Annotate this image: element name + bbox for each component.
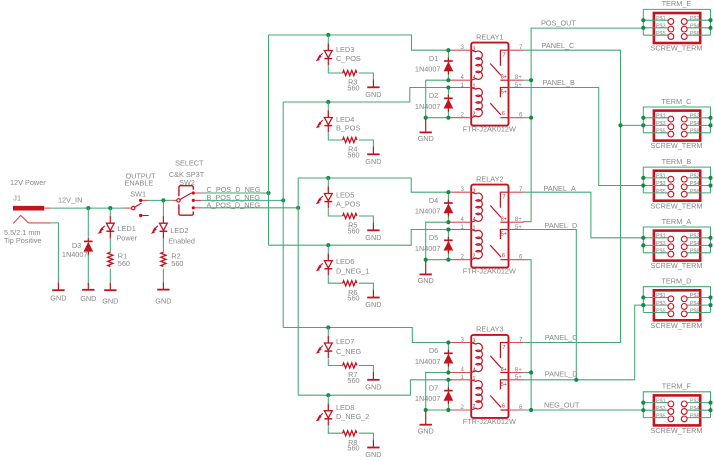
- svg-text:P$4: P$4: [690, 301, 700, 307]
- svg-text:560: 560: [118, 259, 130, 268]
- svg-text:P$2: P$2: [690, 174, 700, 180]
- junction TERM_C right row2: [708, 123, 712, 127]
- svg-text:PANEL_D: PANEL_D: [545, 221, 578, 230]
- svg-text:P$2: P$2: [690, 16, 700, 22]
- diode D4: [444, 200, 453, 217]
- svg-text:4: 4: [461, 216, 465, 223]
- ground GND (R2): [157, 283, 169, 290]
- wire net PANEL_B: [524, 88, 644, 186]
- svg-text:3: 3: [461, 186, 465, 193]
- wire LED2 branch: [162, 200, 164, 284]
- svg-text:8+: 8+: [515, 74, 522, 81]
- svg-text:8+: 8+: [515, 367, 522, 374]
- svg-text:SCREW_TERM: SCREW_TERM: [651, 141, 703, 150]
- svg-text:P$1: P$1: [656, 398, 666, 404]
- svg-text:4: 4: [473, 75, 476, 81]
- svg-text:6: 6: [502, 403, 505, 409]
- svg-text:1: 1: [461, 224, 465, 231]
- LED LED3 symbol: [317, 44, 333, 66]
- svg-text:3: 3: [473, 46, 476, 52]
- svg-text:P$1: P$1: [656, 114, 666, 120]
- wire SW1 to SW2: [148, 199, 172, 201]
- svg-text:5+: 5+: [501, 232, 507, 238]
- svg-text:GND: GND: [365, 233, 381, 242]
- svg-text:GND: GND: [50, 294, 66, 303]
- svg-text:POS_OUT: POS_OUT: [541, 19, 576, 28]
- svg-text:3: 3: [473, 188, 476, 194]
- svg-text:1N4007: 1N4007: [415, 357, 441, 366]
- svg-text:GND: GND: [418, 134, 434, 143]
- svg-text:7: 7: [503, 195, 506, 201]
- svg-text:SELECT: SELECT: [175, 158, 204, 167]
- wire row LED8 to RELAY3 pin1: [298, 380, 452, 395]
- svg-text:3: 3: [461, 337, 465, 344]
- svg-text:RELAY1: RELAY1: [476, 32, 503, 41]
- svg-text:6: 6: [519, 254, 523, 261]
- svg-text:P$3: P$3: [656, 241, 666, 247]
- svg-text:PANEL_C: PANEL_C: [542, 41, 575, 50]
- junction D7 cathode / RELAY3 pin2: [446, 408, 450, 412]
- svg-text:Tip Positive: Tip Positive: [4, 236, 41, 245]
- svg-text:P$1: P$1: [656, 16, 666, 22]
- junction C_POS_D_NEG bus: [266, 191, 270, 195]
- junction RELAY1 coil GND: [424, 116, 428, 120]
- svg-text:6: 6: [502, 253, 505, 259]
- relay RELAY2: [463, 174, 516, 275]
- svg-text:5+: 5+: [515, 374, 522, 381]
- svg-text:LED7: LED7: [336, 337, 354, 346]
- svg-text:P$5: P$5: [656, 31, 666, 37]
- junction TERM_F right row1: [708, 401, 712, 405]
- svg-text:P$1: P$1: [656, 234, 666, 240]
- svg-text:SCREW_TERM: SCREW_TERM: [651, 44, 703, 53]
- svg-text:1N4007: 1N4007: [415, 207, 441, 216]
- svg-text:560: 560: [347, 226, 359, 235]
- svg-text:12V_IN: 12V_IN: [58, 195, 82, 204]
- svg-text:Enabled: Enabled: [168, 237, 195, 246]
- relay RELAY1: [463, 32, 516, 133]
- junction TERM_B right row1: [708, 176, 712, 180]
- relay RELAY3: [463, 325, 516, 426]
- svg-text:D6: D6: [429, 346, 438, 355]
- svg-text:PANEL_D: PANEL_D: [545, 369, 578, 378]
- svg-text:C_POS: C_POS: [336, 54, 361, 63]
- svg-text:P$3: P$3: [656, 121, 666, 127]
- svg-text:P$5: P$5: [656, 129, 666, 135]
- wire LED6 branch: [328, 245, 373, 290]
- junction LED3 tap: [326, 33, 330, 37]
- wire net A_POS_D_NEG: [201, 207, 298, 209]
- svg-text:560: 560: [347, 150, 359, 159]
- svg-text:4: 4: [473, 368, 476, 374]
- svg-text:P$2: P$2: [690, 114, 700, 120]
- svg-text:8+: 8+: [501, 75, 507, 81]
- svg-text:7: 7: [503, 345, 506, 351]
- wire D6 vertical: [447, 343, 449, 373]
- wire net PANEL_D row to TERM_D: [523, 305, 644, 380]
- svg-text:TERM_C: TERM_C: [661, 97, 691, 106]
- svg-text:TERM_A: TERM_A: [662, 217, 692, 226]
- junction LED7 tap: [326, 325, 330, 329]
- svg-text:1: 1: [473, 84, 476, 90]
- svg-text:P$4: P$4: [690, 406, 700, 412]
- svg-text:SW1: SW1: [130, 190, 146, 199]
- svg-text:8+: 8+: [515, 216, 522, 223]
- junction TERM_D right row1: [708, 295, 712, 299]
- resistor R1: [108, 252, 113, 266]
- wire net PANEL_C: [524, 50, 621, 342]
- svg-text:D4: D4: [429, 196, 438, 205]
- svg-text:SCREW_TERM: SCREW_TERM: [651, 201, 703, 210]
- svg-text:GND: GND: [365, 157, 381, 166]
- junction D6 anode / RELAY3 pin3: [446, 340, 450, 344]
- svg-text:D5: D5: [429, 233, 438, 242]
- svg-text:PANEL_A: PANEL_A: [544, 184, 576, 193]
- svg-text:8+: 8+: [501, 217, 507, 223]
- junction D1 cathode / RELAY1 pin4: [446, 78, 450, 82]
- screw terminal TERM_D: [643, 277, 710, 330]
- wire SW1 common stub: [125, 207, 132, 209]
- ground GND (RELAY2 coils): [420, 261, 432, 274]
- junction TERM_F left row1: [641, 401, 645, 405]
- junction D7 anode / RELAY3 pin1: [446, 378, 450, 382]
- svg-text:FTR-J2AK012W: FTR-J2AK012W: [463, 417, 516, 426]
- svg-text:P$2: P$2: [690, 293, 700, 299]
- wire D4 vertical: [447, 192, 449, 222]
- wire LED8 branch: [328, 395, 373, 440]
- screw terminal TERM_F: [643, 382, 710, 435]
- svg-text:LED1: LED1: [118, 224, 136, 233]
- svg-text:4: 4: [461, 74, 465, 81]
- junction 12V_IN / D3: [86, 206, 90, 210]
- svg-text:GND: GND: [365, 90, 381, 99]
- junction D1 anode / RELAY1 pin3: [446, 48, 450, 52]
- svg-text:NEG_OUT: NEG_OUT: [544, 400, 580, 409]
- wire net PANEL_A: [524, 192, 644, 238]
- junction D6 cathode / RELAY3 pin4: [446, 370, 450, 374]
- wire LED3 branch: [328, 35, 373, 80]
- svg-text:3: 3: [461, 44, 465, 51]
- junction TERM_C left row2: [641, 123, 645, 127]
- junction D4 cathode / RELAY2 pin4: [446, 220, 450, 224]
- wire RELAY1 pin8 to chain: [524, 79, 531, 81]
- svg-text:ENABLE: ENABLE: [125, 178, 154, 187]
- svg-text:P$4: P$4: [690, 24, 700, 30]
- ground GND (RELAY1 coils): [420, 119, 432, 132]
- wire RELAY3 pin4 to pin2 link: [426, 373, 449, 411]
- junction TERM_E left row1: [641, 18, 645, 22]
- svg-text:5+: 5+: [501, 382, 507, 388]
- svg-text:RELAY2: RELAY2: [476, 174, 503, 183]
- junction D5 cathode / RELAY2 pin2: [446, 258, 450, 262]
- svg-text:GND: GND: [80, 294, 96, 303]
- switch SW2 (SP3T): [177, 186, 195, 216]
- wire D7 vertical: [447, 380, 449, 410]
- ground GND (RELAY3 coils): [420, 412, 432, 425]
- screw terminal TERM_C: [643, 97, 710, 150]
- LED LED8 symbol: [317, 404, 333, 426]
- svg-text:6: 6: [519, 404, 523, 411]
- svg-text:SCREW_TERM: SCREW_TERM: [651, 321, 703, 330]
- svg-text:560: 560: [347, 83, 359, 92]
- svg-text:4: 4: [473, 217, 476, 223]
- svg-text:GND: GND: [102, 296, 118, 305]
- resistor R3: [343, 70, 357, 75]
- LED LED6 symbol: [317, 254, 333, 276]
- resistor R5: [343, 213, 357, 218]
- svg-text:GND: GND: [365, 450, 381, 459]
- diode D2: [444, 95, 453, 112]
- svg-text:Power: Power: [116, 234, 137, 243]
- ground GND (R8): [367, 440, 379, 448]
- svg-text:P$5: P$5: [656, 308, 666, 314]
- svg-text:A_POS: A_POS: [336, 200, 360, 209]
- junction TERM_E right row2: [708, 26, 712, 30]
- LED LED4 symbol: [317, 111, 333, 133]
- svg-text:560: 560: [347, 294, 359, 303]
- svg-text:1N4007: 1N4007: [415, 244, 441, 253]
- relay RELAY2 pin numbers: [461, 186, 523, 261]
- svg-text:GND: GND: [418, 276, 434, 285]
- svg-text:P$1: P$1: [656, 174, 666, 180]
- svg-text:7: 7: [519, 44, 523, 51]
- wire RELAY2 left pin stubs: [451, 192, 472, 260]
- wire row LED3 to RELAY1 pin3: [269, 35, 453, 50]
- svg-text:TERM_B: TERM_B: [662, 157, 692, 166]
- svg-text:5+: 5+: [515, 82, 522, 89]
- junction D4 anode / RELAY2 pin3: [446, 190, 450, 194]
- svg-text:LED3: LED3: [336, 45, 354, 54]
- screw terminal TERM_A: [643, 217, 710, 270]
- screw terminal TERM_E: [643, 0, 710, 53]
- svg-text:7: 7: [519, 337, 523, 344]
- svg-text:1: 1: [461, 82, 465, 89]
- resistor R8: [343, 431, 357, 436]
- wire LED7 branch: [328, 328, 373, 373]
- svg-text:P$2: P$2: [690, 234, 700, 240]
- wire LED5 branch: [328, 178, 373, 223]
- connector J1 sleeve symbol: [13, 215, 50, 223]
- svg-text:TERM_E: TERM_E: [662, 0, 692, 8]
- wire SW2 common stub: [172, 199, 176, 201]
- ground GND (R5): [367, 223, 379, 231]
- wire RELAY3 left pin stubs: [451, 343, 472, 411]
- resistor R7: [343, 363, 357, 368]
- svg-text:P$3: P$3: [656, 181, 666, 187]
- svg-text:LED6: LED6: [336, 257, 354, 266]
- svg-text:PANEL_C: PANEL_C: [545, 333, 578, 342]
- wire D1 vertical: [447, 50, 449, 80]
- junction TERM_D left row1: [641, 295, 645, 299]
- diode D1: [444, 58, 453, 75]
- ground GND (R4): [367, 147, 379, 155]
- wire row LED5 to RELAY2 pin3: [298, 178, 452, 192]
- svg-text:P$3: P$3: [656, 301, 666, 307]
- wire net 12V_IN J1 to SW1: [51, 207, 125, 209]
- wire row LED7 to RELAY3 pin3: [283, 328, 452, 343]
- wire RELAY1 pin4 to pin2 link: [426, 80, 449, 118]
- svg-text:FTR-J2AK012W: FTR-J2AK012W: [463, 125, 516, 134]
- relay RELAY3 pin numbers: [461, 337, 523, 412]
- svg-text:560: 560: [347, 376, 359, 385]
- svg-text:2: 2: [461, 404, 465, 411]
- switch SW1 (SPDT toggle): [132, 199, 149, 218]
- junction LED4 tap: [326, 100, 330, 104]
- ground GND (J1 sleeve): [52, 283, 64, 291]
- svg-text:5+: 5+: [515, 224, 522, 231]
- svg-text:2: 2: [461, 254, 465, 261]
- diode D6: [444, 350, 453, 367]
- svg-text:P$1: P$1: [656, 293, 666, 299]
- svg-text:D_NEG_2: D_NEG_2: [336, 412, 369, 421]
- junction PANEL_C / TERM_C tap: [618, 123, 622, 127]
- svg-text:FTR-J2AK012W: FTR-J2AK012W: [463, 267, 516, 276]
- svg-text:1N4007: 1N4007: [415, 394, 441, 403]
- LED LED7 symbol: [317, 336, 333, 358]
- junction TERM_A right row2: [708, 243, 712, 247]
- svg-text:1: 1: [473, 376, 476, 382]
- svg-text:2: 2: [461, 112, 465, 119]
- svg-text:J1: J1: [13, 193, 21, 202]
- svg-text:P$6: P$6: [690, 31, 700, 37]
- svg-text:SCREW_TERM: SCREW_TERM: [651, 426, 703, 435]
- junction POS_OUT / RELAY1 pin8: [529, 78, 533, 82]
- junction TERM_E right row1: [708, 18, 712, 22]
- svg-text:P$5: P$5: [656, 189, 666, 195]
- wire D3 branch: [87, 208, 89, 285]
- junction NEG_OUT / RELAY3 pin6: [529, 408, 533, 412]
- junction PANEL_D: [574, 378, 578, 382]
- svg-text:P$2: P$2: [690, 398, 700, 404]
- svg-text:D1: D1: [429, 54, 438, 63]
- LED LED1 symbol: [99, 216, 115, 238]
- screw terminal TERM_B: [643, 157, 710, 210]
- resistor R4: [343, 137, 357, 142]
- ground GND (R1): [104, 283, 116, 290]
- ground GND (R7): [367, 372, 379, 380]
- svg-text:LED8: LED8: [336, 403, 354, 412]
- svg-text:PANEL_B: PANEL_B: [543, 78, 575, 87]
- junction D2 anode / RELAY1 pin1: [446, 85, 450, 89]
- svg-text:D3: D3: [72, 241, 81, 250]
- wire RELAY2 right pin stubs: [509, 192, 524, 260]
- wire net PANEL_D from RELAY2: [523, 230, 577, 380]
- svg-text:P$5: P$5: [656, 414, 666, 420]
- svg-text:3: 3: [473, 339, 476, 345]
- svg-text:2: 2: [473, 254, 476, 260]
- junction TERM_A left row1: [641, 236, 645, 240]
- junction 12V_IN / LED1: [108, 206, 112, 210]
- junction TERM_D left row2: [641, 303, 645, 307]
- svg-text:P$6: P$6: [690, 414, 700, 420]
- junction TERM_B left row1: [641, 176, 645, 180]
- wire row LED4 to RELAY1 pin1: [283, 88, 452, 103]
- svg-text:D_NEG_1: D_NEG_1: [336, 267, 369, 276]
- wire J1 sleeve to GND: [51, 223, 59, 285]
- ground GND (R6): [367, 290, 379, 298]
- svg-text:P$6: P$6: [690, 308, 700, 314]
- svg-text:P$3: P$3: [656, 406, 666, 412]
- LED LED5 symbol: [317, 187, 333, 209]
- junction TERM_E left row2: [641, 26, 645, 30]
- junction RELAY2 coil GND: [424, 258, 428, 262]
- svg-text:2: 2: [473, 404, 476, 410]
- svg-text:5+: 5+: [501, 90, 507, 96]
- resistor R2: [161, 252, 166, 266]
- svg-text:12V Power: 12V Power: [10, 178, 46, 187]
- junction D2 cathode / RELAY1 pin2: [446, 116, 450, 120]
- svg-text:GND: GND: [365, 382, 381, 391]
- svg-text:LED2: LED2: [170, 226, 188, 235]
- svg-text:SCREW_TERM: SCREW_TERM: [651, 261, 703, 270]
- junction LED8 tap: [326, 393, 330, 397]
- wire net NEG_OUT chain: [523, 260, 531, 410]
- wire SW2 throw stubs: [195, 193, 201, 208]
- svg-text:1: 1: [473, 226, 476, 232]
- relay RELAY1 pin numbers: [461, 44, 523, 119]
- svg-text:6: 6: [519, 112, 523, 119]
- junction LED5 tap: [326, 176, 330, 180]
- junction TERM_C left row1: [641, 116, 645, 120]
- svg-text:GND: GND: [155, 296, 171, 305]
- junction TERM_B right row2: [708, 183, 712, 187]
- svg-text:P$6: P$6: [690, 129, 700, 135]
- junction NEG_OUT chain / RELAY3 pin8: [529, 370, 533, 374]
- svg-text:D7: D7: [429, 384, 438, 393]
- junction TERM_A left row2: [641, 243, 645, 247]
- svg-text:6: 6: [502, 111, 505, 117]
- junction TERM_D right row2: [708, 303, 712, 307]
- junction D5 anode / RELAY2 pin1: [446, 227, 450, 231]
- svg-text:RELAY3: RELAY3: [476, 325, 503, 334]
- wire net POS_OUT chain: [523, 28, 643, 222]
- wire LED1 branch: [109, 208, 111, 284]
- wire row LED6 to RELAY2 pin1: [269, 230, 453, 246]
- svg-text:1N4007: 1N4007: [62, 250, 88, 259]
- wire RELAY2 pin4 to pin2 link: [426, 222, 449, 260]
- svg-text:TERM_D: TERM_D: [661, 277, 691, 286]
- svg-text:7: 7: [519, 186, 523, 193]
- svg-text:P$4: P$4: [690, 241, 700, 247]
- svg-text:GND: GND: [365, 300, 381, 309]
- resistor R6: [343, 281, 357, 286]
- wire PANEL_C to TERM_C: [621, 124, 644, 126]
- svg-text:GND: GND: [418, 426, 434, 435]
- svg-text:4: 4: [461, 367, 465, 374]
- svg-text:D2: D2: [429, 91, 438, 100]
- wire bus A_POS_D_NEG vertical: [297, 178, 299, 395]
- wire D5 vertical: [447, 230, 449, 260]
- junction POS_OUT / RELAY1 pin6: [529, 116, 533, 120]
- svg-text:P$4: P$4: [690, 121, 700, 127]
- wire D2 vertical: [447, 88, 449, 118]
- junction TERM_F left row2: [641, 408, 645, 412]
- wire SW1 throw stub: [142, 199, 148, 201]
- ground GND (D3): [82, 283, 94, 290]
- wire RELAY3 pin8 to chain: [524, 372, 531, 374]
- wire LED4 branch: [328, 102, 373, 147]
- diode D7: [444, 387, 453, 404]
- junction LED6 tap: [326, 243, 330, 247]
- junction TERM_F right row2: [708, 408, 712, 412]
- wire bus C_POS_D_NEG vertical: [268, 35, 270, 245]
- junction TERM_A right row1: [708, 236, 712, 240]
- wire J1 tip pin stub: [44, 207, 50, 209]
- svg-text:P$6: P$6: [690, 189, 700, 195]
- svg-text:P$6: P$6: [690, 249, 700, 255]
- wire net B_POS_C_NEG: [201, 199, 283, 201]
- svg-text:P$3: P$3: [656, 24, 666, 30]
